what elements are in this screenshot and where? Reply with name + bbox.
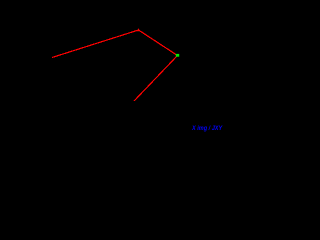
svg-text:X img / JXY: X img / JXY bbox=[191, 125, 223, 132]
